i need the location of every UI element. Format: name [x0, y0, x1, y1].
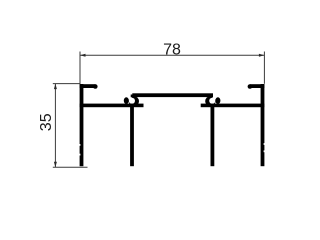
left screw port opening — [129, 95, 132, 100]
right wall notch lower — [264, 150, 265, 152]
left leg — [130, 106, 134, 166]
svg-text:35: 35 — [38, 113, 55, 131]
arrowhead top of 35 dim — [54, 84, 57, 90]
right screw port body — [205, 96, 215, 106]
right web — [201, 104, 265, 108]
arrowhead right of 78 dim — [259, 54, 265, 57]
arrowhead left of 78 dim — [80, 54, 86, 57]
left port lobe — [124, 97, 129, 104]
svg-text:78: 78 — [163, 42, 181, 59]
top-right flange — [250, 84, 265, 88]
extension line top (height dim) — [53, 83, 81, 85]
left wall notch upper — [79, 144, 80, 146]
top-left flange tip — [93, 84, 98, 89]
bridge left curl — [131, 95, 134, 98]
right port lobe — [215, 97, 220, 104]
right screw port cavity — [209, 98, 215, 104]
right wall notch upper — [264, 143, 265, 145]
left screw port cavity — [129, 98, 135, 104]
left wall notch lower — [79, 154, 80, 156]
right leg — [211, 106, 215, 166]
extension line left (width dim) — [79, 52, 81, 84]
right screw port opening — [212, 95, 215, 100]
top-right flange tip — [248, 84, 253, 89]
top-left flange — [80, 84, 96, 88]
dimension line 35 — [54, 84, 56, 168]
bridge bar — [132, 93, 213, 97]
arrowhead bottom of 35 dim — [54, 162, 57, 168]
extension line right (width dim) — [263, 52, 265, 84]
right wall — [261, 84, 265, 166]
dimension line 78 — [80, 54, 264, 56]
left web — [80, 104, 144, 108]
extension line bottom (height dim) — [53, 166, 88, 168]
left wall — [80, 84, 84, 166]
left screw port body — [129, 96, 139, 106]
bridge right curl — [210, 95, 213, 98]
